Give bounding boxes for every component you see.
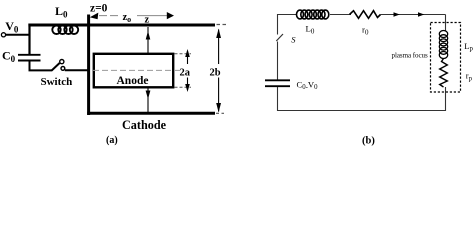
capacitor C0-V0 bottom plate: [265, 85, 290, 87]
terminal V0 (open circle): [1, 33, 5, 37]
capacitor C0 top plate: [18, 54, 41, 56]
2a dimension dashes bottom: [175, 86, 192, 88]
switch contact circle upper: [60, 60, 64, 64]
wire left side lower (switch to capacitor): [277, 42, 279, 80]
wire capacitor bottom down and right to switch: [30, 61, 53, 70]
wire bottom rail (b): [277, 110, 446, 112]
z axis left arrowhead at z=0 plane: [90, 13, 99, 20]
2b dimension arrow down: [216, 78, 221, 113]
wire after r0 to top right corner: [381, 14, 446, 16]
capacitor C0-V0 top plate: [265, 79, 290, 81]
z axis shaft right segment: [137, 15, 168, 17]
2a dimension arrow down: [185, 78, 190, 93]
inductor L0 (loops hanging under the rail): [52, 26, 78, 34]
wire left vertical (top rail corner down to capacitor C0): [28, 24, 30, 55]
switch S blade (b): [276, 34, 283, 41]
current arrow 2: [418, 12, 424, 17]
switch contact circle lower: [61, 67, 65, 71]
wire left side upper (corner to switch): [277, 14, 279, 35]
svg-text:(a): (a): [106, 135, 118, 146]
2a dimension arrow up: [185, 49, 190, 64]
capacitor C0 bottom plate: [18, 60, 41, 62]
gap arrow lower (anode to bottom rail): [146, 88, 151, 113]
anode centerline (dashed): [93, 69, 180, 71]
svg-text:z: z: [145, 14, 150, 25]
bottom rail end dashes: [216, 112, 224, 114]
wire from V0 terminal to left vertical wire: [6, 34, 31, 36]
switch blade: [52, 63, 60, 71]
svg-text:S: S: [291, 34, 296, 44]
wire top left segment: [277, 14, 297, 16]
svg-text:2a: 2a: [180, 67, 191, 78]
inductor L0 (solenoid): [297, 10, 329, 19]
bus (back plate vertical conductor): [87, 15, 90, 116]
anode box: [94, 54, 173, 88]
resistor r0 (zigzag): [350, 11, 381, 19]
wire capacitor down to bottom rail: [277, 87, 279, 111]
resistor rp (vertical zigzag): [440, 59, 448, 88]
svg-text:Cathode: Cathode: [122, 118, 167, 132]
wire between L0 and r0: [330, 14, 351, 16]
svg-text:z=0: z=0: [90, 3, 108, 15]
2a dimension dashes top: [175, 53, 192, 55]
inductor Lp (vertical solenoid): [439, 31, 447, 59]
wire top right corner down into box: [445, 15, 447, 32]
z axis shaft left segment: [99, 15, 121, 17]
wire right side (box bottom to bottom rail): [445, 87, 447, 111]
svg-text:Anode: Anode: [117, 75, 149, 87]
top rail (outer conductor top): [28, 24, 215, 27]
top rail end dashes: [217, 24, 227, 26]
plasma focus dashed box: [431, 23, 461, 93]
gap arrow upper (anode to top rail): [146, 27, 151, 54]
z axis right arrowhead: [167, 12, 174, 19]
svg-text:plasma focus: plasma focus: [392, 51, 428, 59]
bottom rail (outer conductor bottom): [87, 112, 215, 115]
svg-text:2b: 2b: [210, 67, 221, 78]
svg-text:Switch: Switch: [41, 76, 73, 88]
wire switch to bus: [65, 69, 89, 71]
svg-text:(b): (b): [362, 136, 375, 147]
2b dimension arrow up: [216, 29, 221, 65]
current arrow 1: [394, 12, 400, 17]
